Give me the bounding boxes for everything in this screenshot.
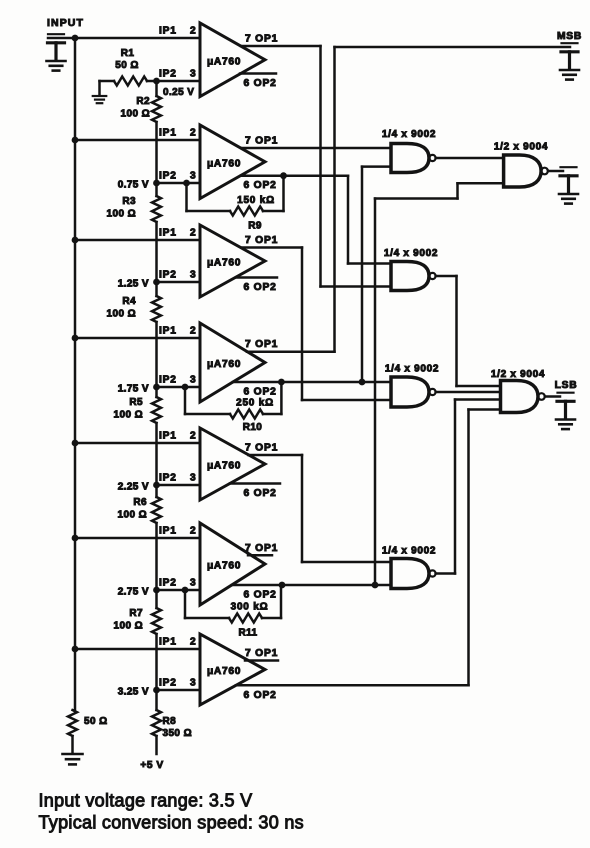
svg-text:2: 2 <box>190 228 196 239</box>
svg-text:1/2 x 9004: 1/2 x 9004 <box>494 142 548 153</box>
svg-text:μA760: μA760 <box>207 461 241 472</box>
svg-text:R3: R3 <box>122 196 136 207</box>
svg-text:1/4 x 9002: 1/4 x 9002 <box>382 129 436 140</box>
svg-text:0.25 V: 0.25 V <box>163 87 194 98</box>
svg-text:350 Ω: 350 Ω <box>163 728 192 739</box>
svg-text:6 OP2: 6 OP2 <box>244 690 277 701</box>
svg-text:2: 2 <box>190 26 196 37</box>
svg-text:IP2: IP2 <box>159 678 177 689</box>
svg-text:2: 2 <box>190 128 196 139</box>
svg-text:3: 3 <box>190 375 196 386</box>
svg-text:1/2 x 9004: 1/2 x 9004 <box>491 369 545 380</box>
svg-text:6 OP2: 6 OP2 <box>244 78 277 89</box>
svg-text:6 OP2: 6 OP2 <box>244 282 277 293</box>
svg-text:3: 3 <box>190 69 196 80</box>
svg-text:IP2: IP2 <box>159 270 177 281</box>
svg-text:2: 2 <box>190 637 196 648</box>
svg-text:2: 2 <box>190 431 196 442</box>
svg-text:μA760: μA760 <box>207 56 241 67</box>
svg-text:100 Ω: 100 Ω <box>107 209 136 220</box>
svg-text:1.25 V: 1.25 V <box>118 279 149 290</box>
svg-text:Typical conversion speed: 30 n: Typical conversion speed: 30 ns <box>39 813 304 833</box>
svg-text:R10: R10 <box>243 422 263 433</box>
svg-text:7 OP1: 7 OP1 <box>245 443 278 454</box>
svg-text:2.75 V: 2.75 V <box>118 587 149 598</box>
svg-text:R9: R9 <box>248 221 262 232</box>
svg-text:MSB: MSB <box>557 31 582 42</box>
svg-text:R5: R5 <box>129 397 143 408</box>
svg-text:300 kΩ: 300 kΩ <box>231 602 269 613</box>
svg-text:2: 2 <box>190 326 196 337</box>
svg-text:2.25 V: 2.25 V <box>118 482 149 493</box>
svg-text:Input voltage range: 3.5 V: Input voltage range: 3.5 V <box>39 791 253 811</box>
svg-text:IP2: IP2 <box>159 578 177 589</box>
svg-text:2: 2 <box>190 526 196 537</box>
svg-text:μA760: μA760 <box>207 666 241 677</box>
svg-text:IP1: IP1 <box>159 26 177 37</box>
svg-text:7 OP1: 7 OP1 <box>245 339 278 350</box>
svg-text:IP1: IP1 <box>159 637 177 648</box>
svg-text:1/4 x 9002: 1/4 x 9002 <box>384 248 438 259</box>
svg-text:μA760: μA760 <box>207 258 241 269</box>
svg-text:R1: R1 <box>121 48 135 59</box>
svg-text:1/4 x 9002: 1/4 x 9002 <box>382 546 436 557</box>
svg-text:7 OP1: 7 OP1 <box>245 235 278 246</box>
svg-text:IP2: IP2 <box>159 69 177 80</box>
svg-text:100 Ω: 100 Ω <box>118 510 147 521</box>
svg-text:1.75 V: 1.75 V <box>118 384 149 395</box>
svg-text:100 Ω: 100 Ω <box>114 410 143 421</box>
svg-text:+5 V: +5 V <box>140 760 163 771</box>
svg-text:μA760: μA760 <box>207 359 241 370</box>
svg-text:3: 3 <box>190 578 196 589</box>
svg-text:7 OP1: 7 OP1 <box>245 648 278 659</box>
svg-text:IP2: IP2 <box>159 171 177 182</box>
svg-text:6 OP2: 6 OP2 <box>244 387 277 398</box>
svg-text:100 Ω: 100 Ω <box>114 621 143 632</box>
svg-text:100 Ω: 100 Ω <box>121 109 150 120</box>
svg-text:3: 3 <box>190 473 196 484</box>
svg-text:LSB: LSB <box>555 380 578 391</box>
svg-text:R2: R2 <box>136 96 150 107</box>
svg-text:μA760: μA760 <box>207 561 241 572</box>
svg-text:IP1: IP1 <box>159 228 177 239</box>
svg-text:7 OP1: 7 OP1 <box>245 136 278 147</box>
svg-text:μA760: μA760 <box>207 158 241 169</box>
svg-text:R6: R6 <box>133 497 147 508</box>
svg-text:0.75 V: 0.75 V <box>118 180 149 191</box>
svg-text:IP1: IP1 <box>159 526 177 537</box>
svg-text:3.25 V: 3.25 V <box>118 687 149 698</box>
svg-text:IP1: IP1 <box>159 326 177 337</box>
svg-text:6 OP2: 6 OP2 <box>244 180 277 191</box>
svg-text:R11: R11 <box>239 628 258 639</box>
svg-text:INPUT: INPUT <box>47 17 84 29</box>
svg-text:250 kΩ: 250 kΩ <box>236 398 274 409</box>
svg-text:IP1: IP1 <box>159 128 177 139</box>
svg-text:IP2: IP2 <box>159 473 177 484</box>
svg-text:1/4 x 9002: 1/4 x 9002 <box>385 364 439 375</box>
svg-text:150 kΩ: 150 kΩ <box>237 195 275 206</box>
svg-text:3: 3 <box>190 171 196 182</box>
svg-text:6 OP2: 6 OP2 <box>244 590 277 601</box>
svg-text:3: 3 <box>190 678 196 689</box>
svg-text:7 OP1: 7 OP1 <box>245 543 278 554</box>
svg-text:R7: R7 <box>129 608 143 619</box>
svg-text:7 OP1: 7 OP1 <box>245 34 278 45</box>
svg-text:50 Ω: 50 Ω <box>84 716 108 727</box>
svg-text:R8: R8 <box>163 716 177 727</box>
svg-text:50 Ω: 50 Ω <box>115 60 139 71</box>
svg-text:IP1: IP1 <box>159 431 177 442</box>
svg-text:IP2: IP2 <box>159 375 177 386</box>
svg-text:6 OP2: 6 OP2 <box>244 488 277 499</box>
svg-text:100 Ω: 100 Ω <box>107 309 136 320</box>
svg-text:3: 3 <box>190 270 196 281</box>
svg-text:R4: R4 <box>122 296 136 307</box>
